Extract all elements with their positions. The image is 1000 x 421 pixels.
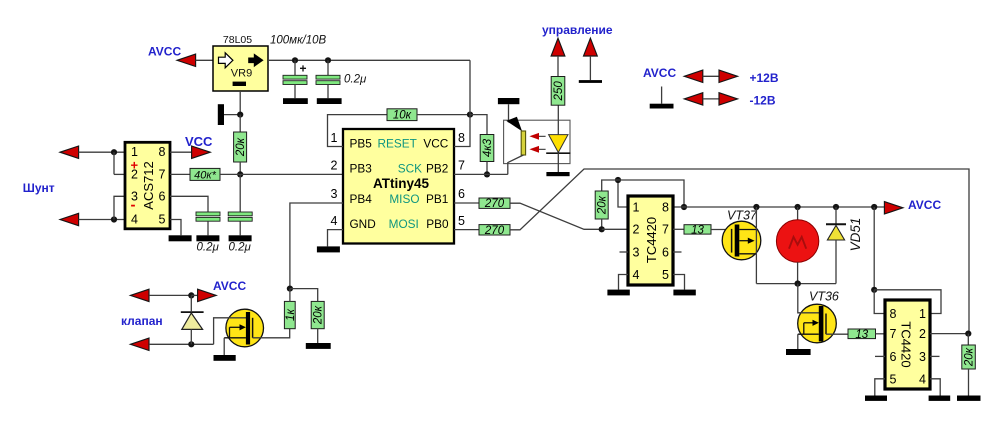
wire 10k to VCC node <box>417 114 470 116</box>
VT37 source link <box>739 253 756 255</box>
svg-text:TC4420: TC4420 <box>899 321 914 367</box>
resistor 4к3 <box>480 135 494 162</box>
junction pin7 / 4k3 / opto <box>484 171 490 177</box>
wire TC1 pin1 to vcc node <box>618 180 628 207</box>
junction shunt lower node <box>111 216 117 222</box>
VT klapan source link <box>224 337 246 339</box>
svg-text:3: 3 <box>331 187 338 201</box>
svg-text:VCC: VCC <box>185 134 213 149</box>
resistor 250 <box>551 77 565 106</box>
svg-text:2: 2 <box>919 327 926 341</box>
wire TC2 pin4 ground <box>930 379 940 396</box>
svg-text:1к: 1к <box>285 309 297 321</box>
wire клапан upper <box>149 294 191 296</box>
wire 40k to ATtiny PB3 <box>220 173 343 175</box>
wire connector bar to node <box>224 114 240 116</box>
svg-text:7: 7 <box>890 327 897 341</box>
svg-text:20к: 20к <box>313 305 325 325</box>
svg-text:7: 7 <box>159 167 166 181</box>
svg-text:7: 7 <box>458 159 465 173</box>
svg-text:6: 6 <box>890 350 897 364</box>
ground under VT36 <box>786 349 811 355</box>
ground under TC2 pin5 <box>865 396 887 401</box>
wire TC2 pin5 ground <box>875 379 885 396</box>
wire ATtiny GND pin4 <box>328 230 344 247</box>
wire C3 bottom stub <box>207 221 209 235</box>
svg-text:6: 6 <box>458 187 465 201</box>
svg-text:4: 4 <box>919 372 926 386</box>
svg-text:ATtiny45: ATtiny45 <box>373 176 430 191</box>
optocoupler U3 body <box>504 120 570 163</box>
wire ACS712 pin8 to VCC <box>170 151 192 153</box>
svg-text:6: 6 <box>662 246 669 260</box>
wire TC2 pin8 drop <box>874 290 885 314</box>
svg-text:AVCC: AVCC <box>643 66 676 80</box>
wire C2 bottom stub <box>327 85 329 99</box>
svg-text:GND: GND <box>350 217 376 231</box>
wire AVCC arrow to VR9 <box>196 59 213 61</box>
svg-text:1: 1 <box>919 307 926 321</box>
wire ACS712 pin6 to C3 <box>170 196 208 212</box>
wire VT gate to 1k <box>253 329 290 338</box>
wire управление 1 <box>557 56 559 77</box>
opto light arrow lower <box>529 146 545 153</box>
wire LED cathode down <box>557 153 559 172</box>
svg-text:+: + <box>300 62 307 76</box>
wire ATtiny PB1 stub <box>454 202 479 204</box>
svg-text:78L05: 78L05 <box>223 34 252 46</box>
ground under C2 <box>317 98 342 104</box>
opto phototransistor base plate <box>521 131 525 155</box>
junction клапан lower node <box>188 341 194 347</box>
junction TC1 pin8 rail <box>681 204 687 210</box>
svg-text:клапан: клапан <box>121 314 163 328</box>
resistor 1к <box>284 301 296 328</box>
terminal bar управление 2 <box>579 80 602 83</box>
VR9 output arrow (black) <box>248 53 263 67</box>
junction VT36 drain node <box>795 281 801 287</box>
svg-text:+: + <box>131 158 139 173</box>
VT37 gate line <box>731 229 733 253</box>
opto LED cathode bar <box>546 152 570 154</box>
svg-text:1: 1 <box>633 201 640 215</box>
svg-text:20к: 20к <box>964 347 976 367</box>
junction TC1 vcc node <box>615 177 621 183</box>
wire 13 to TC2 pin7 <box>876 333 886 335</box>
wire C1 top stub <box>294 60 296 75</box>
wire TC2 pin2 input <box>930 333 968 335</box>
ground under 20k klapan <box>306 343 331 349</box>
svg-text:MISO: MISO <box>389 192 419 206</box>
capacitor C3 0.2u (filter) <box>196 212 220 221</box>
ground under TC2 pin4 <box>929 396 951 401</box>
diode VD51 cathode bar <box>826 223 846 225</box>
IC U4 TC4420 body <box>628 196 673 285</box>
junction VD51 top on rail <box>833 204 839 210</box>
wire TC1 pin3 stub <box>620 251 629 253</box>
junction VCC node <box>467 112 473 118</box>
wire 270A cross down <box>510 203 602 229</box>
IC U5 TC4420 body (second) <box>885 300 930 389</box>
svg-text:8: 8 <box>458 131 465 145</box>
VT36 gate line <box>825 314 827 335</box>
wire клапан lower <box>149 343 214 345</box>
wire управление 2 <box>589 56 591 80</box>
wire node to AVCC arrow <box>191 294 197 296</box>
opto LED triangle <box>549 135 568 153</box>
wire node down to pin2 <box>113 152 115 174</box>
VT36 source link <box>798 333 819 335</box>
capacitor C1 100mk polarized <box>283 75 307 84</box>
VT klapan channel bar <box>246 312 250 345</box>
resistor 20к (клапан pulldown) <box>311 301 325 328</box>
svg-text:PB4: PB4 <box>350 192 373 206</box>
wire node to 1k top <box>289 289 291 302</box>
wire 20k bottom to pin7 net <box>239 162 241 174</box>
ground under C3 <box>196 235 219 241</box>
wire ATtiny PB2 pin7 run <box>454 173 508 175</box>
svg-text:100мк/10В: 100мк/10В <box>270 35 326 47</box>
wire VD51 cathode up <box>835 207 837 224</box>
ground under opto LED <box>546 172 569 176</box>
wire C2 top stub <box>327 60 329 75</box>
wire pin3 stub and drop <box>114 196 125 219</box>
wire input node to TC1 pin2 <box>602 228 628 230</box>
VT37 channel bar <box>735 225 740 257</box>
svg-text:8: 8 <box>159 145 166 159</box>
legend arrow left +12 <box>684 70 703 82</box>
legend wire -12 <box>703 98 719 100</box>
wire TC1 pin7 to 13 <box>673 228 684 230</box>
svg-text:5: 5 <box>662 268 669 282</box>
resistor 40к* <box>190 168 220 181</box>
wire opto emitter <box>508 155 524 174</box>
transistor VT36 body <box>798 304 837 343</box>
svg-text:-: - <box>131 197 136 214</box>
VT37 drain link <box>739 229 756 231</box>
wire ACS712 pin7 to 40k <box>170 173 190 175</box>
resistor 270 (upper) <box>479 198 510 210</box>
wire TC2 pin6 stub left <box>875 355 885 357</box>
wire shunt upper to pin1 <box>79 151 125 153</box>
wire LED anode up <box>557 105 559 134</box>
svg-text:1: 1 <box>331 131 338 145</box>
svg-text:8: 8 <box>662 201 669 215</box>
wire VT source down <box>223 338 225 355</box>
VR9 internal ground bar <box>233 82 246 86</box>
arrow AVCC right <box>884 202 903 214</box>
svg-text:3: 3 <box>633 246 640 260</box>
arrow управление 2 <box>584 38 598 56</box>
ground under 20k right <box>957 396 981 401</box>
wire VD51 anode down <box>835 240 837 284</box>
junction motor top on rail <box>795 204 801 210</box>
ground under TC1 pin4 <box>607 290 629 296</box>
svg-text:0.2μ: 0.2μ <box>344 74 367 86</box>
voltage regulator VR9 78L05 body <box>213 46 268 91</box>
resistor 270 (lower) <box>479 225 510 237</box>
resistor 13 (VT36 gate) <box>848 329 876 341</box>
legend arrow right -12 <box>719 93 738 105</box>
svg-text:4: 4 <box>331 214 338 228</box>
svg-text:ACS712: ACS712 <box>141 161 156 209</box>
legend ground bar <box>650 104 674 109</box>
svg-text:AVCC: AVCC <box>908 198 941 212</box>
junction VT37 drain on rail <box>753 204 759 210</box>
ground under ACS712 pin5 <box>169 235 192 241</box>
legend wire +12 <box>703 75 719 77</box>
svg-text:RESET: RESET <box>378 137 417 151</box>
junction cap C1 tap <box>292 57 298 63</box>
svg-text:7: 7 <box>662 223 669 237</box>
svg-text:VCC: VCC <box>423 137 448 151</box>
wire motor bottom <box>797 262 799 283</box>
wire motor top <box>797 207 799 220</box>
wire ATtiny PB0 stub <box>454 229 479 231</box>
wire C1 bottom stub <box>294 85 296 99</box>
wire vcc node to 20k top <box>602 180 618 191</box>
opto phototransistor collector arrow <box>506 117 522 132</box>
svg-text:4к3: 4к3 <box>482 138 494 157</box>
ground under C1 <box>283 98 308 104</box>
arrow shunt lower <box>60 213 79 225</box>
wire opto collector <box>508 104 510 122</box>
wire TC1 pin4 ground <box>619 275 629 290</box>
svg-text:8: 8 <box>890 307 897 321</box>
svg-text:PB5: PB5 <box>350 137 373 151</box>
svg-text:SCK: SCK <box>398 161 422 175</box>
junction клапан upper node <box>188 292 194 298</box>
arrow клапан upper <box>130 289 149 301</box>
resistor 20к (under VR9) <box>234 132 248 162</box>
svg-text:PB0: PB0 <box>426 217 449 231</box>
wire diode anode down <box>190 329 192 344</box>
wire VT36 gate to 13 <box>826 333 848 335</box>
wire C4 bottom stub <box>239 221 241 235</box>
VT36 substrate arrow <box>804 320 819 335</box>
svg-text:250: 250 <box>553 81 565 102</box>
resistor 13 (VT37 gate) <box>684 224 711 236</box>
arrow AVCC top-left <box>177 54 196 66</box>
svg-text:AVCC: AVCC <box>213 279 246 293</box>
ground under TC1 pin5 <box>673 290 695 296</box>
wire VT36 source down <box>797 334 799 349</box>
wire 20k bottom to ground <box>968 369 970 396</box>
capacitor C4 0.2u (output RC) <box>228 212 252 221</box>
wire TC1 pin5 ground <box>673 275 685 290</box>
wire 13 to VT37 gate <box>711 229 732 231</box>
wire shunt lower to pin4 <box>79 219 125 221</box>
svg-text:270: 270 <box>484 225 505 237</box>
svg-text:2: 2 <box>331 159 338 173</box>
svg-text:управление: управление <box>542 23 613 37</box>
svg-text:4: 4 <box>633 268 640 282</box>
diode VD (клапан flyback) triangle <box>182 313 203 329</box>
connector bar left of VR9 node <box>218 104 224 125</box>
legend ground stem <box>661 87 663 104</box>
capacitor C2 0.2u <box>316 75 340 84</box>
svg-text:6: 6 <box>159 189 166 203</box>
junction VR9 bottom node <box>237 112 243 118</box>
junction TC1 input node <box>599 226 605 232</box>
wire ACS712 pin5 to ground <box>170 220 181 236</box>
connector bar above optocoupler <box>498 98 520 104</box>
arrow VCC <box>192 146 211 158</box>
VT37 substrate arrow <box>739 238 754 244</box>
legend arrow left -12 <box>684 93 703 105</box>
svg-text:4: 4 <box>131 213 138 227</box>
junction TC2 input node <box>965 331 971 337</box>
resistor 20к (TC2 input) <box>962 345 976 369</box>
ground under ATtiny pin4 <box>317 246 340 252</box>
VR9 input arrow (white) <box>219 53 233 68</box>
wire node to 4k3 <box>470 115 487 135</box>
svg-text:-12В: -12В <box>750 93 776 107</box>
svg-text:5: 5 <box>890 372 897 386</box>
wire 270B cross up and long rail <box>510 169 969 334</box>
motor M1 body <box>776 220 818 262</box>
svg-text:270: 270 <box>484 198 505 210</box>
IC U1 ACS712 body <box>125 142 170 229</box>
wire pin2 stub <box>114 173 125 175</box>
arrow AVCC клапан <box>198 289 217 301</box>
arrow управление 1 <box>551 38 565 56</box>
wire diode cathode up <box>190 295 192 312</box>
svg-text:PB3: PB3 <box>350 161 373 175</box>
wire TC1 pin6 stub <box>673 251 682 253</box>
svg-text:5: 5 <box>159 213 166 227</box>
wire 20k bottom <box>317 329 319 343</box>
svg-text:20к: 20к <box>235 137 247 157</box>
svg-text:40к*: 40к* <box>194 169 216 181</box>
VT klapan substrate arrow <box>230 324 246 338</box>
svg-text:Шунт: Шунт <box>23 181 55 195</box>
wire VT36 drain entry <box>798 284 820 313</box>
svg-text:AVCC: AVCC <box>148 45 181 59</box>
wire node to C4 <box>239 174 241 212</box>
legend arrow right +12 <box>719 70 738 82</box>
arrow shunt upper <box>60 146 79 158</box>
wire TC2 pin3 stub right <box>930 355 940 357</box>
ground under C4 <box>229 235 252 241</box>
resistor 20к (TC1 input pullup) <box>595 191 609 219</box>
svg-text:VR9: VR9 <box>231 68 252 80</box>
svg-text:MOSI: MOSI <box>389 217 419 231</box>
svg-text:VD51: VD51 <box>848 218 863 252</box>
opto light arrow upper <box>529 133 545 140</box>
wire node to 20k top <box>290 289 318 302</box>
svg-text:PB1: PB1 <box>426 192 448 206</box>
svg-text:3: 3 <box>919 350 926 364</box>
wire branch down <box>873 207 875 290</box>
ground under VT klapan <box>214 355 236 361</box>
junction motor bottom node <box>795 281 801 287</box>
svg-text:VT36: VT36 <box>809 290 839 304</box>
junction TC2 vcc node <box>871 287 877 293</box>
wire 20k bottom to input <box>601 219 603 229</box>
wire VR9 bottom stub <box>239 91 241 115</box>
wire motor bottom run to VD51 <box>756 283 836 285</box>
resistor 10к <box>387 109 417 122</box>
junction cap C2 tap <box>325 57 331 63</box>
junction PB4 node <box>287 286 293 292</box>
svg-text:10к: 10к <box>393 110 412 122</box>
wire 4k3 to pin7 net <box>486 162 488 175</box>
wire ATtiny PB4 pin3 down <box>290 203 343 289</box>
wire node to 20k top <box>239 115 241 132</box>
motor M mark <box>789 237 806 249</box>
svg-text:5: 5 <box>458 214 465 228</box>
wire VT drain entry <box>214 318 247 345</box>
wire TC2 vcc over to pin1 <box>874 290 941 314</box>
svg-text:+12В: +12В <box>750 71 779 85</box>
svg-text:13: 13 <box>691 224 704 236</box>
transistor VT (клапан) body <box>226 309 264 347</box>
wire vcc node over to pin8 <box>618 180 684 207</box>
wire VT37 drain-source vertical <box>755 207 757 284</box>
svg-text:20к: 20к <box>597 195 609 215</box>
VT klapan gate line <box>252 318 254 338</box>
VT36 channel bar <box>819 306 824 342</box>
wire +12 rail <box>684 206 885 208</box>
svg-text:13: 13 <box>855 329 868 341</box>
junction 40k / 20k node <box>237 171 243 177</box>
junction shunt upper node <box>111 149 117 155</box>
svg-text:PB2: PB2 <box>426 161 448 175</box>
wire VCC node vertical <box>454 60 470 146</box>
IC U2 ATtiny45 body <box>343 129 454 244</box>
transistor VT37 body <box>722 221 761 260</box>
svg-text:2: 2 <box>633 223 640 237</box>
svg-text:0.2μ: 0.2μ <box>229 242 252 254</box>
wire input node to 20k <box>967 334 969 345</box>
wire VR9 output rail <box>268 59 470 61</box>
wire TC1 pin8 stub <box>673 206 684 208</box>
svg-text:VT37: VT37 <box>727 209 758 223</box>
arrow клапан lower <box>130 338 149 350</box>
diode VD (клапан flyback) cathode bar <box>181 311 204 313</box>
junction rail branch right <box>871 204 877 210</box>
svg-text:TC4420: TC4420 <box>644 217 659 263</box>
wire ATtiny pin1 to 10k net <box>328 115 388 147</box>
svg-text:0.2μ: 0.2μ <box>197 242 220 254</box>
diode VD51 triangle <box>827 225 844 240</box>
